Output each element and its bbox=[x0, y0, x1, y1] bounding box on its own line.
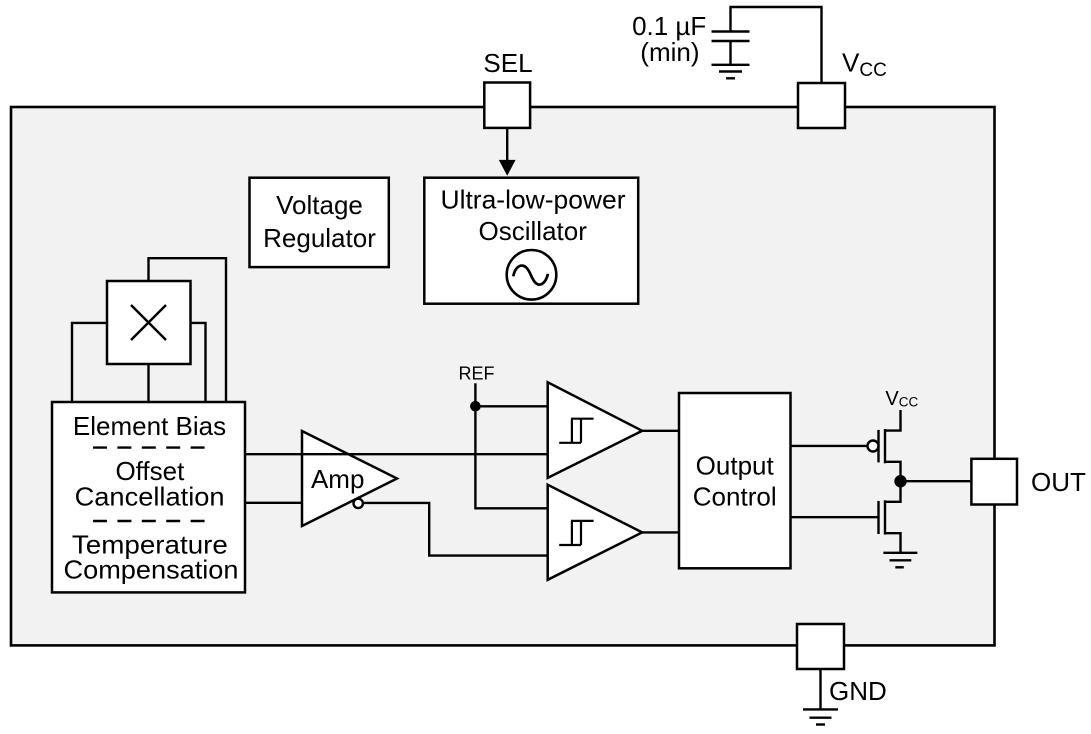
svg-text:Element Bias: Element Bias bbox=[73, 411, 226, 441]
svg-text:Voltage: Voltage bbox=[276, 190, 363, 220]
svg-text:REF: REF bbox=[459, 364, 495, 384]
svg-text:GND: GND bbox=[829, 676, 887, 706]
svg-text:Regulator: Regulator bbox=[263, 223, 376, 253]
svg-text:VCC: VCC bbox=[842, 48, 887, 81]
svg-text:Oscillator: Oscillator bbox=[479, 216, 588, 246]
svg-text:Output: Output bbox=[696, 451, 775, 481]
svg-text:Compensation: Compensation bbox=[64, 555, 239, 585]
svg-text:Ultra-low-power: Ultra-low-power bbox=[441, 185, 626, 215]
svg-text:Control: Control bbox=[693, 482, 777, 512]
svg-text:(min): (min) bbox=[640, 37, 699, 67]
svg-text:SEL: SEL bbox=[483, 48, 532, 78]
svg-text:Cancellation: Cancellation bbox=[75, 482, 225, 512]
svg-text:OUT: OUT bbox=[1031, 467, 1086, 497]
svg-text:Amp: Amp bbox=[311, 464, 364, 494]
